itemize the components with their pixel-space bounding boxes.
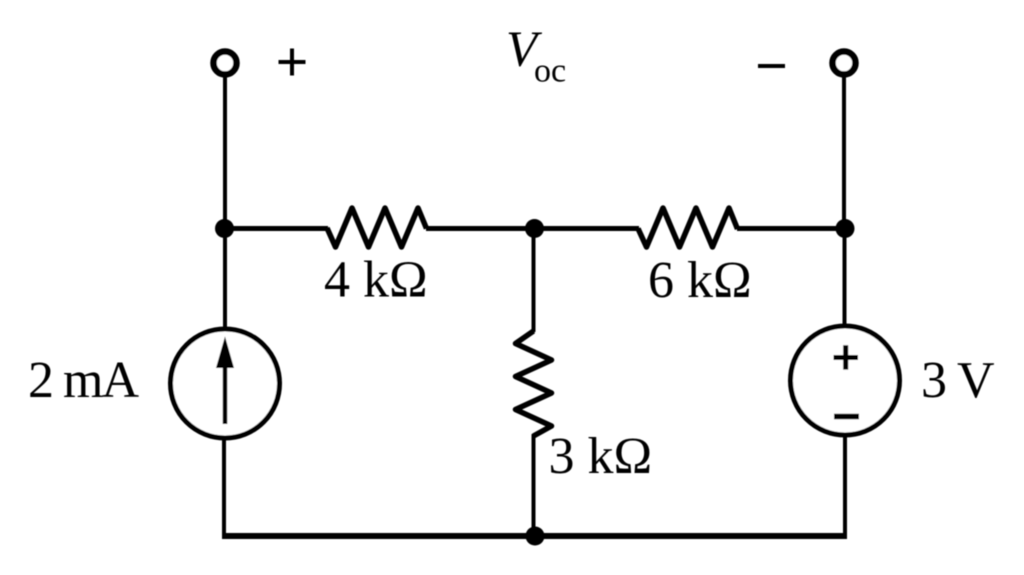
wire: bottom rail: [222, 533, 847, 539]
svg-text:2 mA: 2 mA: [28, 352, 139, 409]
wire: right terminal down to node C: [842, 75, 846, 229]
resistor R3 3 kOhm vertical zigzag: [516, 331, 552, 436]
wire: node A to resistor 4k left lead: [225, 226, 328, 231]
voltage source V1 circle: [791, 326, 900, 435]
node D junction dot on bottom rail: [526, 527, 545, 546]
wire: resistor 6k right lead to node C: [737, 226, 845, 231]
wire: node A down to current source top: [223, 228, 227, 327]
node B junction dot: [525, 219, 544, 238]
voltage source + mark: [834, 345, 859, 369]
wire: voltage source bottom to bottom rail: [843, 435, 847, 536]
svg-text:4 kΩ: 4 kΩ: [324, 252, 428, 309]
label: + polarity of Voc: [279, 49, 306, 76]
wire: resistor 4k right lead to node B: [426, 226, 536, 231]
wire: resistor 3k bottom lead to bottom node D: [532, 434, 536, 536]
resistor R1 4 kOhm zigzag: [327, 208, 427, 247]
wire: node B to resistor 6k left lead: [534, 226, 639, 231]
svg-text:3 V: 3 V: [921, 352, 994, 409]
label: - polarity of Voc: [758, 64, 785, 68]
terminal b (right open terminal): [833, 52, 856, 75]
wire: current source bottom to bottom rail: [222, 438, 226, 536]
current source arrow head: [216, 337, 234, 369]
current source I1 circle: [171, 329, 280, 438]
terminal a (left open terminal): [214, 52, 237, 75]
svg-text:oc: oc: [534, 53, 566, 90]
node C junction dot: [836, 219, 855, 238]
wire: left terminal down to node A: [223, 75, 227, 229]
resistor R2 6 kOhm zigzag: [638, 208, 738, 247]
current source arrow shaft: [223, 362, 228, 424]
svg-text:6 kΩ: 6 kΩ: [648, 252, 752, 309]
svg-text:3 kΩ: 3 kΩ: [549, 428, 653, 485]
voltage source - mark: [834, 414, 859, 420]
wire: node C down to voltage source top: [843, 228, 847, 326]
wire: node B down to resistor 3k top lead: [532, 228, 536, 332]
node A junction dot: [215, 219, 234, 238]
